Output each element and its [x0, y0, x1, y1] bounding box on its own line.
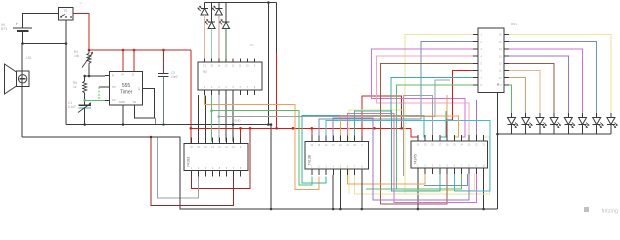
- wire LED D4 anode: [225, 29, 227, 59]
- svg-text:BT1: BT1: [1, 27, 7, 31]
- wire red to 74193 pin16: [240, 128, 242, 141]
- LED D1: [197, 3, 208, 16]
- LED D12: [607, 113, 618, 134]
- wire purple drop 74245: [475, 100, 477, 141]
- wire khaki vertical: [348, 110, 350, 194]
- wire gray U2 to resistor pack: [219, 80, 450, 117]
- wire red to 555 VCC: [122, 50, 124, 72]
- wire GND bus to bottom bus: [270, 125, 273, 211]
- LED D9: [564, 113, 575, 134]
- wire down to 74193 pin2: [198, 95, 200, 142]
- svg-text:74245: 74245: [414, 154, 418, 165]
- IC U3 74193: [184, 138, 248, 177]
- wire LED D2 anode: [211, 29, 213, 59]
- wire C2 to GND: [162, 77, 165, 126]
- capacitor C2: [158, 71, 178, 79]
- wire magenta net arc: [348, 113, 477, 202]
- LED D4: [219, 3, 230, 29]
- svg-text:555: 555: [122, 83, 131, 89]
- wire red bus to 74138 pin1: [311, 127, 314, 142]
- svg-text:+: +: [16, 22, 19, 27]
- wire node horizontal to 555 pin: [83, 75, 105, 78]
- wire battery neg to switch bottom: [23, 42, 68, 45]
- resistor R5: [73, 76, 87, 105]
- svg-text:10nF: 10nF: [171, 75, 178, 79]
- wire loop to gnd: [155, 118, 157, 125]
- U2 top pin stubs: [205, 59, 226, 63]
- wire red net rpack: [447, 71, 473, 142]
- svg-text:1k: 1k: [73, 85, 77, 89]
- wire green dashed to threshold: [98, 87, 100, 100]
- wire pink net: [377, 56, 474, 141]
- wire brown net: [381, 63, 474, 204]
- switch S1: [59, 1, 83, 20]
- wire LED D1 anode: [204, 15, 206, 59]
- wire orange U2 to 74138: [205, 95, 319, 190]
- wire orange drop 74245: [446, 95, 448, 137]
- svg-text:RN1: RN1: [511, 22, 517, 26]
- svg-text:TH: TH: [133, 100, 137, 104]
- wire rail branch down: [276, 3, 278, 54]
- wire rpack pin12 to LED: [509, 63, 554, 113]
- wire rpack pin10 to LED: [509, 78, 526, 113]
- wire khaki inner loop: [405, 174, 475, 191]
- resistor network RN1: [473, 22, 517, 93]
- wire magenta net: [371, 49, 473, 141]
- wire switch pin2 down to GND bus: [65, 20, 67, 125]
- wire green down to 74193: [210, 109, 213, 141]
- wire U2 pin5 down to 74193: [232, 95, 235, 142]
- LED D5: [508, 113, 519, 134]
- svg-text:CV: CV: [112, 98, 116, 102]
- LED cathode bus right: [496, 133, 611, 136]
- svg-text:Q: Q: [138, 87, 140, 91]
- wire red bus to 74245: [411, 128, 418, 141]
- svg-text:fritzing: fritzing: [602, 209, 618, 215]
- wire green net rpack pin8: [397, 85, 474, 189]
- wire cyan net: [326, 121, 490, 192]
- potentiometer R4: [74, 50, 93, 68]
- wire gray down to 74193: [218, 115, 221, 141]
- wire 555 gnd: [122, 105, 125, 126]
- svg-text:R: R: [112, 74, 114, 78]
- wire teal loop 74138: [302, 115, 391, 183]
- bottom bus dots: [332, 208, 485, 211]
- wire green bottom link: [366, 174, 462, 189]
- IC U6 74245: [411, 135, 488, 174]
- wire green U2 to 74138: [212, 95, 312, 185]
- wire teal net rpack: [391, 78, 473, 141]
- LED D3: [212, 3, 223, 16]
- battery BT1: [1, 22, 32, 32]
- svg-text:V+: V+: [121, 73, 125, 77]
- wire red lower left loop: [150, 136, 234, 206]
- wire red 74138 to bus: [362, 96, 403, 142]
- wire teal arc net: [355, 111, 440, 191]
- wire 74138 pin8b to bus: [361, 175, 364, 210]
- svg-text:U2: U2: [203, 70, 207, 74]
- wire red switch to bus: [73, 14, 89, 51]
- svg-text:D: D: [132, 73, 134, 77]
- svg-text:S1: S1: [64, 9, 68, 13]
- wire red to C2: [163, 50, 165, 74]
- svg-text:74138: 74138: [308, 155, 312, 166]
- svg-text:GND: GND: [234, 119, 242, 123]
- red VCC bus: [88, 49, 191, 52]
- IC U4 74138: [305, 136, 369, 176]
- wire 555 output loop: [135, 89, 155, 119]
- red VCC bus lower: [191, 127, 411, 130]
- wire C1 to GND: [83, 108, 86, 126]
- wire 74245 pin1b to bus: [417, 174, 419, 209]
- 555 pin stubs: [105, 76, 147, 101]
- LED D8: [550, 113, 561, 134]
- wire red to 555 DIS: [133, 50, 135, 72]
- wire khaki branch: [349, 109, 405, 111]
- wire steelblue bottom loop: [424, 174, 468, 185]
- svg-text:LS1: LS1: [26, 56, 32, 60]
- wire gray link to 74245 pin: [404, 96, 433, 177]
- svg-text:10k: 10k: [74, 54, 80, 58]
- svg-text:D1: D1: [250, 43, 254, 47]
- wire purple net arc: [333, 118, 469, 200]
- red bus junction: [292, 127, 295, 130]
- LED D10: [579, 113, 590, 134]
- wire gray loop under 74193: [158, 137, 199, 198]
- LED D6: [522, 113, 533, 134]
- wire speaker vertical: [21, 44, 23, 138]
- wire resistor-pack common down: [497, 93, 499, 210]
- GND bus: [66, 119, 272, 126]
- wire down to 74193 pin3: [205, 96, 207, 142]
- wire 74245 pin10b to bus: [483, 174, 485, 209]
- IC U2: [198, 59, 262, 96]
- svg-text:Timer: Timer: [120, 90, 133, 96]
- op-amp U1 555 timer: [110, 72, 143, 106]
- wire orange bottom link: [348, 174, 426, 184]
- capacitor C1: [68, 101, 91, 113]
- speaker ground wire: [22, 137, 498, 209]
- wire green trigger: [83, 99, 105, 102]
- svg-text:0.1uF: 0.1uF: [68, 105, 76, 109]
- speaker LS1: [5, 56, 32, 94]
- wire LED D3 anode: [218, 15, 220, 59]
- wire steelblue net: [319, 42, 473, 142]
- wire pot to node: [88, 66, 91, 77]
- wire rail down right side: [267, 3, 270, 126]
- LED cathode rail: [205, 1, 277, 4]
- LED D11: [593, 113, 604, 134]
- wire rpack pin11 to LED: [509, 71, 540, 114]
- wire teal drop 74245: [440, 111, 446, 141]
- wire rpack pin13 to LED: [509, 56, 568, 113]
- wire 74138 pin4 to bus: [332, 175, 334, 209]
- wire red loop under 74193: [192, 128, 251, 188]
- wire 555 threshold: [99, 86, 105, 88]
- wire battery top to switch: [23, 14, 59, 29]
- wire 74138 pin5 to bus: [339, 175, 341, 209]
- svg-text:TR: TR: [112, 85, 116, 89]
- LED D7: [536, 113, 547, 134]
- wire rpack pin9 to LED: [509, 85, 512, 113]
- wire rpack pin15 to LED: [509, 42, 597, 113]
- wire red riser to bus: [275, 53, 278, 130]
- wire rpack pin16 to LED: [509, 35, 611, 114]
- wire yellow left arm: [355, 175, 405, 194]
- wire orange link 74138 to 74245: [340, 116, 458, 142]
- fritzing watermark: [584, 207, 589, 212]
- wire battery neg: [21, 31, 24, 45]
- wire red bus corner down: [190, 50, 193, 144]
- wire rpack pin14 to LED: [509, 49, 583, 113]
- svg-text:74193: 74193: [187, 157, 191, 168]
- LED D2: [204, 3, 215, 29]
- wire yellow Rpack pin1: [405, 35, 490, 195]
- wire U2 pin4 down to 74193: [225, 95, 227, 142]
- svg-text:GND: GND: [119, 100, 125, 104]
